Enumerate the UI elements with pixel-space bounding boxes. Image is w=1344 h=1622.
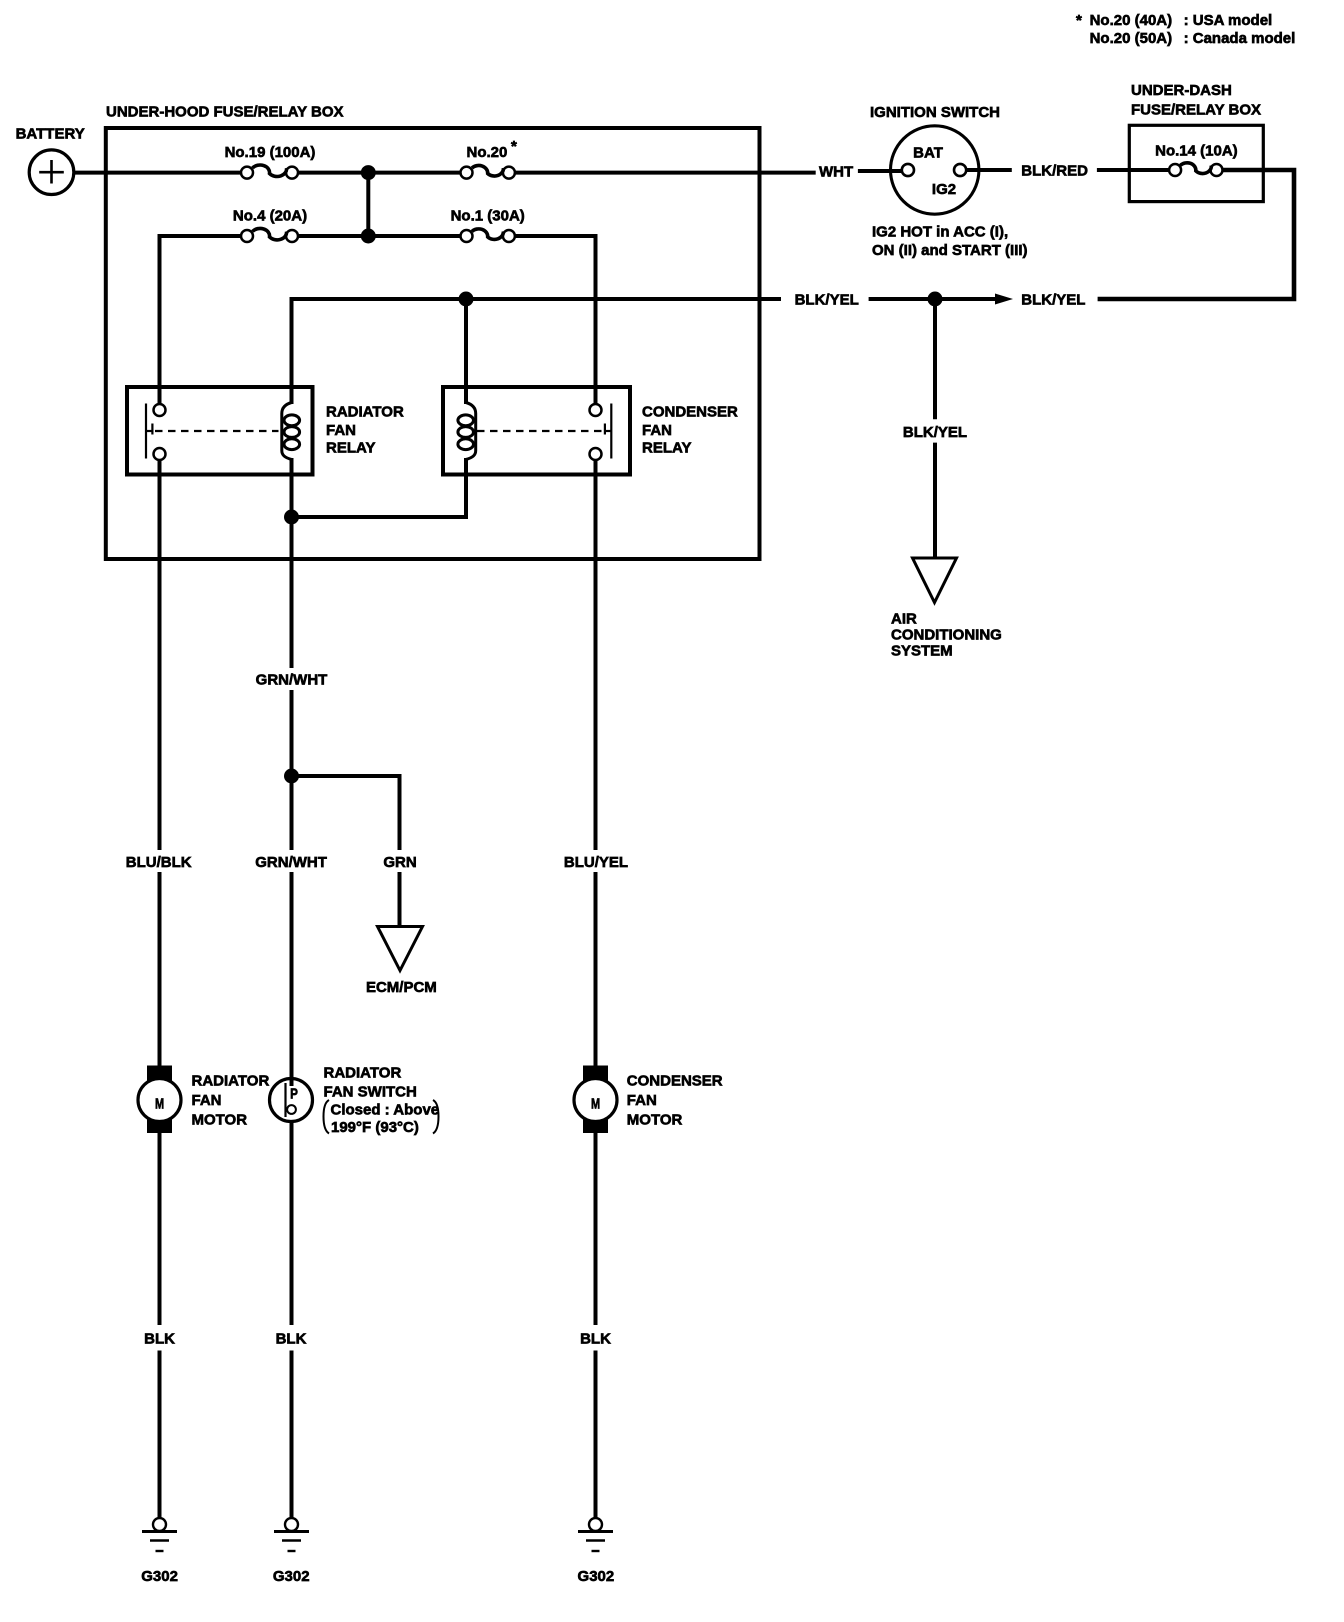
svg-text:M: M (591, 1095, 600, 1112)
svg-text:ON (II) and START (III): ON (II) and START (III) (872, 242, 1028, 259)
svg-text:BLK: BLK (580, 1330, 611, 1347)
svg-text:M: M (155, 1095, 164, 1112)
svg-text:G302: G302 (578, 1568, 615, 1585)
svg-text:FAN SWITCH: FAN SWITCH (324, 1083, 417, 1100)
svg-text:G302: G302 (141, 1568, 178, 1585)
svg-text:FAN: FAN (627, 1092, 657, 1109)
svg-text:: Canada model: : Canada model (1184, 30, 1296, 47)
svg-text:CONDENSER: CONDENSER (627, 1072, 723, 1089)
svg-text:RELAY: RELAY (326, 439, 375, 456)
svg-text:CONDENSER: CONDENSER (642, 403, 738, 420)
svg-text:UNDER-HOOD FUSE/RELAY BOX: UNDER-HOOD FUSE/RELAY BOX (106, 104, 344, 121)
svg-text:P: P (290, 1085, 298, 1102)
svg-text:GRN/WHT: GRN/WHT (256, 671, 328, 688)
svg-text:*: * (1076, 12, 1082, 29)
svg-text:GRN: GRN (383, 854, 416, 871)
svg-text:No.20 (50A): No.20 (50A) (1090, 30, 1173, 47)
svg-text:IG2: IG2 (932, 181, 956, 198)
svg-text:Closed : Above: Closed : Above (331, 1101, 440, 1118)
svg-text:SYSTEM: SYSTEM (891, 642, 953, 659)
svg-text:RADIATOR: RADIATOR (324, 1065, 402, 1082)
svg-text:BLK/YEL: BLK/YEL (795, 292, 859, 309)
svg-text:No.1 (30A): No.1 (30A) (451, 207, 525, 224)
svg-text:BLK/YEL: BLK/YEL (1021, 292, 1085, 309)
svg-text:FAN: FAN (326, 422, 356, 439)
svg-text:BLK: BLK (276, 1330, 307, 1347)
svg-text:IG2 HOT in ACC (I),: IG2 HOT in ACC (I), (872, 223, 1008, 240)
svg-text:MOTOR: MOTOR (627, 1111, 683, 1128)
svg-text:No.20 (40A): No.20 (40A) (1090, 12, 1173, 29)
svg-text:BATTERY: BATTERY (16, 125, 85, 142)
svg-text:BAT: BAT (913, 144, 943, 161)
svg-text:MOTOR: MOTOR (192, 1111, 248, 1128)
svg-text:199°F (93°C): 199°F (93°C) (331, 1119, 419, 1136)
svg-text:WHT: WHT (819, 164, 853, 181)
svg-text:FAN: FAN (642, 422, 672, 439)
svg-text:BLK: BLK (144, 1330, 175, 1347)
svg-text:No.20: No.20 (467, 144, 508, 161)
svg-text:No.19 (100A): No.19 (100A) (225, 144, 316, 161)
svg-text:BLU/YEL: BLU/YEL (564, 854, 628, 871)
svg-text:BLU/BLK: BLU/BLK (126, 854, 192, 871)
svg-text:No.14 (10A): No.14 (10A) (1155, 142, 1238, 159)
svg-text:UNDER-DASH: UNDER-DASH (1131, 82, 1232, 99)
svg-text:GRN/WHT: GRN/WHT (255, 854, 327, 871)
svg-text:BLK/YEL: BLK/YEL (903, 424, 967, 441)
svg-text:ECM/PCM: ECM/PCM (366, 979, 437, 996)
svg-text:RADIATOR: RADIATOR (192, 1072, 270, 1089)
svg-text:FAN: FAN (192, 1092, 222, 1109)
svg-text:: USA model: : USA model (1184, 12, 1273, 29)
svg-text:No.4 (20A): No.4 (20A) (233, 207, 307, 224)
svg-text:RADIATOR: RADIATOR (326, 403, 404, 420)
svg-text:CONDITIONING: CONDITIONING (891, 626, 1002, 643)
svg-text:G302: G302 (273, 1568, 310, 1585)
svg-text:IGNITION SWITCH: IGNITION SWITCH (870, 104, 1000, 121)
svg-text:FUSE/RELAY BOX: FUSE/RELAY BOX (1131, 101, 1261, 118)
svg-text:*: * (511, 138, 517, 155)
svg-text:AIR: AIR (891, 610, 917, 627)
svg-text:RELAY: RELAY (642, 439, 691, 456)
svg-text:BLK/RED: BLK/RED (1021, 162, 1088, 179)
